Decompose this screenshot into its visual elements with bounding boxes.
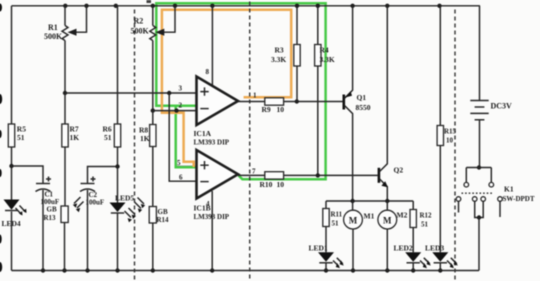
potentiometer R1 500K — [44, 6, 87, 93]
svg-text:LM393 DIP: LM393 DIP — [194, 139, 230, 147]
wire pin2 net (R2/R8 node to IC1A -) — [153, 110, 197, 112]
svg-text:M1: M1 — [364, 212, 375, 221]
svg-text:8550: 8550 — [356, 103, 371, 112]
pin label 8 — [206, 68, 210, 76]
svg-text:R15: R15 — [444, 128, 457, 136]
resistor R12 51 — [410, 201, 432, 252]
svg-text:7: 7 — [252, 168, 256, 176]
svg-text:R1: R1 — [48, 23, 58, 32]
battery DC3V — [470, 6, 512, 168]
wire bottom 0V rail — [12, 270, 480, 272]
svg-text:1: 1 — [253, 92, 257, 100]
pin label 3 — [179, 85, 183, 93]
wire pin6 net vertical — [169, 93, 196, 181]
resistor R9 10 — [262, 98, 285, 114]
pin label 1 — [253, 92, 257, 100]
resistor R7 — [62, 93, 79, 206]
photoresistor GB R14 — [135, 198, 170, 271]
svg-text:500K: 500K — [131, 26, 150, 35]
photoresistor GB R13 — [44, 197, 84, 271]
svg-text:4: 4 — [206, 200, 210, 208]
resistor R10 10 — [260, 172, 285, 189]
label LED3 — [425, 244, 444, 253]
svg-text:R3: R3 — [275, 46, 284, 55]
svg-text:GB: GB — [158, 208, 168, 216]
dashed section divider 3 — [454, 10, 456, 281]
transistor Q2 (NPN) — [378, 6, 404, 201]
svg-text:IC1A: IC1A — [194, 129, 212, 138]
node junction pin2/pin5 tee — [174, 108, 178, 112]
junction dots on top rail — [63, 4, 442, 8]
green highlight loop (net trace) — [156, 3, 325, 179]
svg-text:10: 10 — [446, 137, 454, 145]
LED D1 — [318, 252, 344, 270]
svg-text:R13: R13 — [44, 214, 57, 222]
resistor R5 — [8, 124, 26, 147]
svg-text:LED5: LED5 — [115, 194, 134, 203]
photo edge artifacts — [0, 0, 151, 272]
node junction pin3/pin6 tee — [167, 91, 171, 95]
wire left border column — [11, 6, 13, 271]
svg-text:3.3K: 3.3K — [320, 55, 335, 64]
svg-text:10: 10 — [277, 105, 285, 114]
svg-text:DC3V: DC3V — [491, 102, 513, 111]
wire IC1B output to Q2 base — [238, 174, 378, 176]
label LED5 — [115, 194, 134, 203]
wire motor rail — [326, 200, 413, 202]
wire pin3 net (R1/R7 node to IC1A +) — [65, 92, 197, 94]
svg-text:R14: R14 — [157, 216, 170, 224]
wire junction to C1 — [12, 166, 44, 184]
label LED2 — [394, 244, 413, 253]
LED D2 — [405, 252, 431, 270]
motor M1 — [344, 201, 375, 271]
svg-text:R11: R11 — [331, 211, 343, 219]
svg-text:K1: K1 — [504, 185, 514, 194]
svg-text:1K: 1K — [140, 134, 150, 143]
svg-text:R10: R10 — [260, 180, 273, 189]
svg-text:51: 51 — [104, 133, 112, 142]
capacitor C2 100uF (polarized) — [80, 167, 118, 271]
pin label 5 — [177, 159, 181, 167]
svg-text:LED1: LED1 — [309, 244, 328, 253]
dashed section divider 2 — [249, 2, 251, 281]
svg-text:M: M — [349, 215, 358, 225]
svg-text:10: 10 — [277, 180, 285, 189]
svg-text:500K: 500K — [44, 32, 63, 41]
resistor R15 10 — [437, 6, 456, 253]
svg-text:3: 3 — [179, 85, 183, 93]
motor M2 — [378, 201, 408, 271]
switch K1 SW-DPDT — [456, 168, 535, 271]
pin label 2 — [179, 102, 183, 110]
resistor R11 51 — [323, 201, 343, 252]
LED D5 — [110, 203, 137, 271]
svg-text:8: 8 — [206, 68, 210, 76]
LED D4 — [4, 200, 27, 216]
svg-text:51: 51 — [421, 221, 429, 229]
capacitor C1 100uF (polarized) — [36, 177, 60, 271]
node junction R3/output1 — [295, 99, 299, 103]
svg-text:SW-DPDT: SW-DPDT — [503, 195, 535, 203]
node junction R2/R8/pin2 — [151, 108, 155, 112]
pin label 4 — [206, 200, 210, 208]
label LED1 — [309, 244, 328, 253]
wire top +V rail — [12, 5, 481, 7]
wire IC1A output to Q1 base — [238, 101, 343, 103]
svg-text:5: 5 — [177, 159, 181, 167]
node junction Q1 collector / M1 — [350, 199, 354, 203]
svg-text:2: 2 — [179, 102, 183, 110]
node junction R5/LED4/C1 — [9, 164, 13, 168]
junction dots on bottom rail — [41, 268, 443, 272]
node junction R6/LED5/C2 — [115, 164, 119, 168]
svg-text:GB: GB — [47, 206, 57, 214]
svg-text:51: 51 — [17, 133, 25, 142]
potentiometer R2 500K — [131, 6, 176, 111]
node junction R1/R7/pin3 — [63, 91, 67, 95]
resistor R8 — [139, 111, 156, 207]
svg-text:M: M — [383, 215, 392, 225]
svg-text:1K: 1K — [70, 133, 80, 142]
pin label 7 — [252, 168, 256, 176]
svg-text:LED3: LED3 — [425, 244, 444, 253]
svg-text:R4: R4 — [320, 46, 329, 55]
svg-text:R2: R2 — [134, 17, 144, 26]
pin label 6 — [179, 174, 183, 182]
svg-text:LED4: LED4 — [2, 219, 21, 228]
svg-text:M2: M2 — [397, 211, 408, 220]
label LED4 — [2, 219, 21, 228]
node junction battery/switch bar — [477, 165, 481, 169]
transistor Q1 8550 (PNP) — [343, 6, 371, 201]
orange highlight loop (net trace) — [162, 10, 291, 167]
svg-text:3.3K: 3.3K — [271, 55, 286, 64]
wire pin5 net vertical (under green highlight) — [176, 111, 197, 167]
op-amp IC1A — [194, 77, 239, 147]
wire pin8 stub to +V — [211, 6, 213, 86]
resistor R4 3.3K — [315, 6, 335, 176]
op-amp IC1B — [194, 150, 239, 221]
svg-text:51: 51 — [332, 220, 340, 228]
svg-text:LED2: LED2 — [394, 244, 413, 253]
resistor R3 3.3K — [271, 6, 300, 102]
svg-text:R9: R9 — [262, 105, 271, 114]
svg-text:Q1: Q1 — [357, 93, 367, 102]
resistor R6 — [103, 6, 121, 203]
LED D3 — [432, 252, 458, 270]
node junction R4/output7 — [316, 173, 320, 177]
svg-text:6: 6 — [179, 174, 183, 182]
svg-text:Q2: Q2 — [394, 166, 404, 175]
svg-text:R12: R12 — [420, 212, 433, 220]
wire pin4 stub to 0V — [211, 191, 213, 271]
node junction Q2 emitter / M2 — [385, 199, 389, 203]
dashed section divider 1 — [134, 10, 136, 281]
svg-text:100uF: 100uF — [86, 198, 105, 206]
